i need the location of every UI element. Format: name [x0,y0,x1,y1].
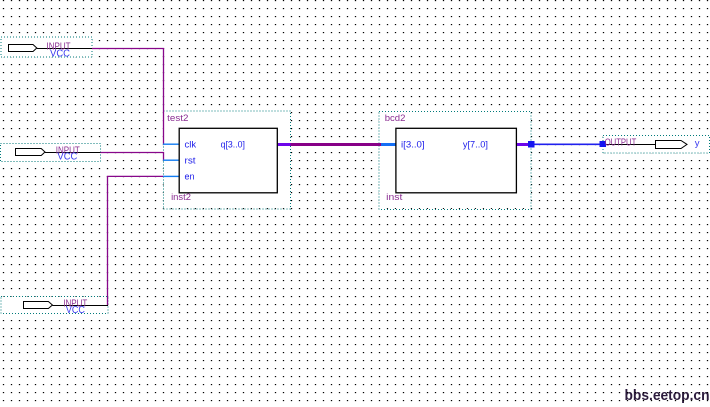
wire net VCC middle to rst [100,153,163,161]
pin label q[3..0] [221,139,245,150]
svg-text:clk: clk [185,139,197,150]
input pin VCC bottom labels [63,299,87,317]
input pin VCC top symbol [9,45,93,52]
svg-text:en: en [185,171,195,182]
pin label en [185,171,195,182]
block U1 test2 name label [167,113,188,124]
block U2 instance label inst [386,192,403,203]
block U2 bcd2 body [396,128,517,193]
svg-text:y: y [695,138,700,149]
svg-text:OUTPUT: OUTPUT [605,137,637,148]
wire net VCC bottom to en [108,176,164,305]
input pin VCC top labels [47,41,71,59]
input pin VCC middle labels [56,145,80,162]
input pin VCC top selection box [1,37,92,57]
input pin VCC bottom symbol [24,302,109,309]
svg-text:bcd2: bcd2 [385,113,406,124]
svg-text:inst2: inst2 [171,192,191,203]
junction square node left [528,141,535,148]
input pin VCC middle symbol [16,149,101,156]
port stub i[3..0] input of bcd2 [381,143,396,146]
block U2 bcd2 selection box [379,112,531,210]
wire net VCC top to clk [92,49,164,145]
block U1 instance label inst2 [171,192,191,203]
wire bus net y[7..0] to output pin [535,143,601,145]
svg-text:test2: test2 [167,113,188,124]
block U2 bcd2 name label [385,113,406,124]
port stub clk [163,143,179,145]
block U1 test2 selection box [163,111,290,209]
svg-text:q[3..0]: q[3..0] [221,139,245,150]
svg-text:VCC: VCC [50,48,70,59]
input pin VCC bottom selection box [1,296,108,313]
input pin VCC middle selection box [0,144,100,162]
grid dots showing at block U2 selection bottom edge [387,208,531,210]
junction square node right [600,141,606,147]
port stub rst [163,159,179,161]
pin label i[3..0] [401,139,425,150]
svg-text:i[3..0]: i[3..0] [401,139,425,150]
grid dots showing at block U1 selection bottom edge [171,208,291,210]
pin label y[7..0] [463,139,488,150]
pin label rst [185,155,196,166]
svg-text:VCC: VCC [57,151,77,162]
svg-text:inst: inst [386,192,403,203]
output pin labels [605,137,700,148]
port stub y[7..0] output of bcd2 [516,143,528,146]
svg-text:y[7..0]: y[7..0] [463,139,488,150]
wire bus net q[3..0] test2 to bcd2 [291,143,382,146]
output pin y symbol [606,141,687,149]
port stub en [163,175,179,177]
svg-text:rst: rst [185,155,196,166]
watermark bbs.eetop.cn [625,387,710,404]
svg-text:VCC: VCC [66,305,85,316]
output pin y selection box [603,135,710,153]
block U1 test2 body [179,128,277,193]
pin label clk [185,139,197,150]
port stub q[3..0] output of test2 [278,143,291,146]
